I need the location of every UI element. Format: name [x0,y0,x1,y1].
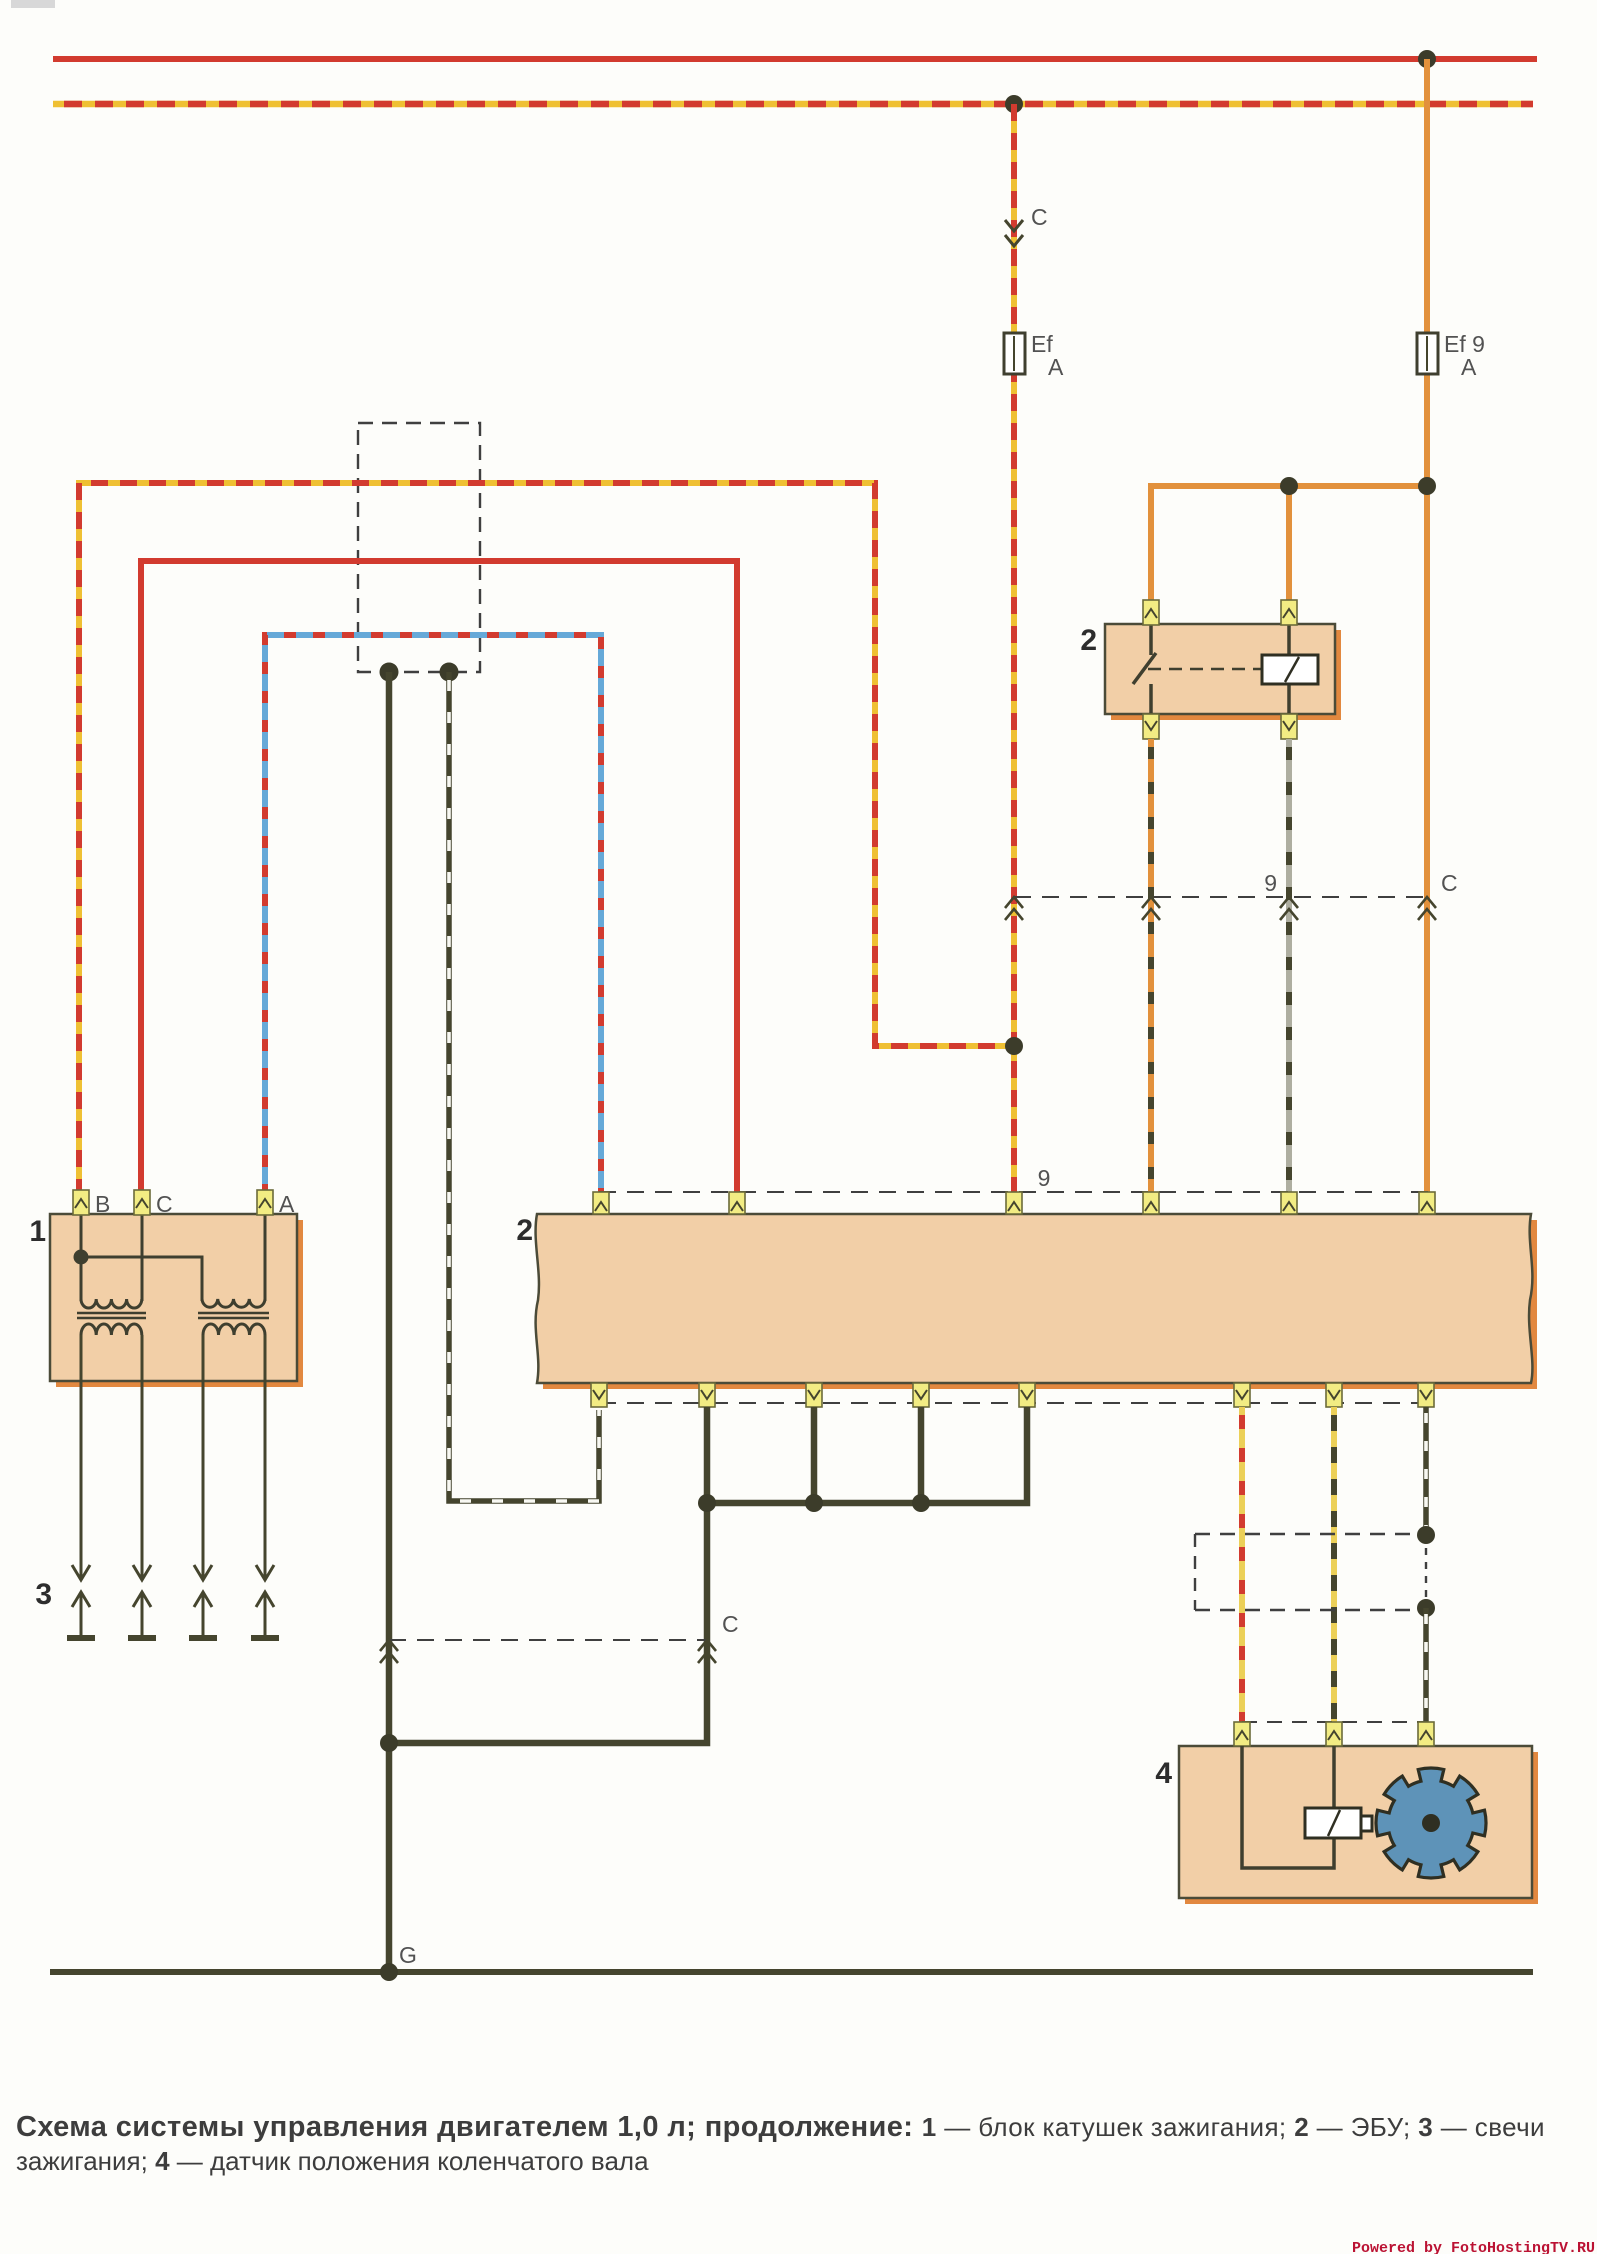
connector ECU bottom pin 4 (olive) [913,1383,929,1407]
connector ECU top pin 5 (gray/black) [1281,1192,1297,1214]
sensor pickup coil body [1305,1808,1372,1838]
fuse Ef 9 A [1417,333,1438,374]
coil pack internal wire from pin B [80,1214,83,1301]
relay actuation dashed link [1148,668,1262,671]
svg-text:A: A [1048,354,1064,380]
connector ECU bottom pin 3 (olive) [806,1383,822,1407]
wire black/white shield lower segment [1423,1608,1429,1724]
bus B+ (solid red power rail) [53,56,1537,62]
connector ECU bottom pin 8 (black/white shield) [1418,1383,1434,1407]
node: junction dot at ground bus [380,1963,398,1981]
connector pin B of coil pack [73,1190,89,1215]
wire yellow/red ECU to crank sensor [1239,1407,1245,1724]
sensor internal lead wire [1332,1746,1336,1808]
connector pin relay bottom-right [1281,714,1297,739]
chevrons on section line at gray/black wire [1280,897,1298,920]
node: collector dot pin4 [912,1494,930,1512]
node: junction dot bus B+ / orange feed [1418,50,1436,68]
svg-text:9: 9 [1264,870,1277,896]
chevrons on section line at orange wire [1418,897,1436,920]
wire yellow/red from ignition bus to coil pack pin B [79,483,1014,1196]
wire olive ECU pin2 to ground junction [389,1407,707,1743]
bus ignition (yellow/red dashed rail) [53,101,1533,108]
ECU 2 body with shadow (wavy torn edges) [536,1214,1537,1389]
connector ECU bottom pin 5 (olive) [1019,1383,1035,1407]
HT lead spark plug 3 [194,1335,212,1638]
transformer T1 primary winding [81,1299,142,1308]
connector ECU top pin 2 (red) [729,1192,745,1214]
node: dot ghost box left [380,663,399,682]
connector ECU bottom pin 6 (yellow/red to sensor) [1234,1383,1250,1407]
wire orange main feed from B+ bus to ECU [1424,59,1430,1196]
svg-text:B: B [95,1191,110,1217]
wire gray/black from relay coil to ECU [1286,739,1292,1196]
svg-text:C: C [1441,870,1458,896]
ghost connector box (dashed) [358,423,480,672]
crankshaft sensor 4 body with shadow [1179,1746,1538,1904]
reluctor gear wheel [1376,1768,1486,1878]
section line 9 / C (dashed) [1014,896,1427,898]
ignition coil pack 1 body with shadow [50,1214,303,1387]
wire olive ECU pin5 drop [918,1407,925,1503]
svg-text:A: A [279,1191,295,1217]
wire yellow/red from ignition bus down to fuse Ef and ECU pin [1011,104,1017,1196]
svg-text:C: C [156,1191,173,1217]
connector ECU bottom pin 7 (yellow/black to sensor) [1326,1383,1342,1407]
connector pin C of coil pack [134,1190,150,1215]
scan corner mark [11,0,55,8]
svg-text:3: 3 [35,1578,52,1611]
svg-text:A: A [1461,354,1477,380]
svg-text:Powered by FotoHostingTV.RU: Powered by FotoHostingTV.RU [1352,2240,1595,2254]
section line C (dashed) [389,1639,708,1641]
node: collector dot pin2 [698,1494,716,1512]
node: internal junction dot [74,1250,89,1265]
svg-text:2: 2 [1080,624,1097,657]
svg-text:1: 1 [29,1215,46,1248]
node: shield dot lower [1417,1599,1435,1617]
section line 9 above ECU (dashed) [599,1191,1433,1193]
node: junction dot orange branch at main feed [1418,477,1436,495]
spark plug 2 ground bar [128,1635,156,1641]
node: shield dot upper [1417,1526,1435,1544]
sensor internal loop wire [1242,1746,1334,1868]
svg-text:C: C [1031,204,1048,230]
connector sensor pin 2 [1326,1722,1342,1746]
svg-text:Схема системы управления двига: Схема системы управления двигателем 1,0 … [16,2111,1545,2143]
node: junction dot ground leads [380,1734,398,1752]
interrupt chevrons C on yellow/red wire [1005,220,1023,246]
relay coil winding box [1262,624,1318,714]
wire orange drop to relay pin 2 [1286,486,1292,601]
spark plug 1 ground bar [67,1635,95,1641]
coil pack internal wire from pin C [141,1214,144,1301]
relay switch contact [1133,624,1156,714]
section line above sensor (dashed) [1242,1721,1426,1723]
transformer T2 primary winding [202,1299,265,1307]
wire red solid to coil pack pin C and ECU [141,561,737,1196]
ground bus G [50,1969,1533,1975]
svg-text:C: C [722,1611,739,1637]
svg-text:9: 9 [1038,1165,1051,1191]
connector ECU bottom pin 1 (black/white) [591,1383,607,1407]
connector pin relay top-right [1281,600,1297,625]
transformer T1 core [77,1312,146,1315]
wire blue/red to coil pack pin A and ECU [265,635,601,1196]
shield ghost box (dashed) [1195,1534,1426,1610]
connector sensor pin 3 [1418,1722,1434,1746]
transformer T2 core [198,1312,269,1315]
wire orange/black from relay switch to ECU [1148,739,1154,1196]
chevrons at ECU ground wire [698,1640,716,1663]
wire yellow/black ECU to crank sensor [1331,1407,1337,1724]
svg-text:2: 2 [516,1214,533,1247]
node: junction dot yellow/red at x1014 [1005,1037,1023,1055]
node: junction dot ignition bus / yellow-red feed [1005,95,1023,113]
node: junction dot orange branch at relay pin 2 [1280,477,1298,495]
connector ECU bottom pin 2 (olive to ground C) [699,1383,715,1407]
internal branch wire to transformer 2 primary [81,1257,202,1301]
connector ECU top pin 1 (blue/red) [593,1192,609,1214]
wire orange relay feed branch (horizontal) [1151,483,1427,489]
chevrons at ground lead [380,1640,398,1663]
connector ECU top pin 6 (orange) [1419,1192,1435,1214]
wire olive ECU ground collector [707,1407,1027,1503]
spark plug 3 ground bar [189,1635,217,1641]
HT lead spark plug 1 [72,1335,90,1638]
wire black/white dashed from ghost box to ECU [449,672,599,1501]
connector ECU top pin 4 (orange/black) [1143,1192,1159,1214]
connector pin relay top-left [1143,600,1159,625]
svg-text:зажигания; 4 — датчик положени: зажигания; 4 — датчик положения коленчат… [16,2146,649,2176]
wire orange drop to relay pin 1 [1148,483,1154,601]
connector ECU top pin 3 (yellow/red) [1006,1192,1022,1214]
wire olive ground lead from ghost box to ground bus [386,672,393,1972]
connector sensor pin 1 [1234,1722,1250,1746]
transformer T2 secondary winding [203,1324,265,1335]
relay K (2) body with shadow [1105,624,1341,720]
coil pack internal wire from pin A [264,1214,267,1301]
node: dot ghost box right [440,663,459,682]
svg-text:4: 4 [1155,1757,1172,1790]
HT lead spark plug 4 [256,1335,274,1638]
chevrons on section line at yellow/red wire [1005,897,1023,920]
wire black/white shield upper segment [1423,1407,1429,1535]
section line below ECU (dashed) [599,1402,1433,1404]
node: collector dot pin3 [805,1494,823,1512]
connector pin relay bottom-left [1143,714,1159,739]
connector pin A of coil pack [257,1190,273,1215]
fuse Ef A [1004,333,1025,374]
transformer T1 secondary winding [81,1324,142,1335]
HT lead spark plug 2 [133,1335,151,1638]
svg-text:G: G [399,1942,417,1968]
wire olive ECU pin4 drop [811,1407,818,1503]
spark plug 4 ground bar [251,1635,279,1641]
chevrons on section line at orange/black wire [1142,897,1160,920]
